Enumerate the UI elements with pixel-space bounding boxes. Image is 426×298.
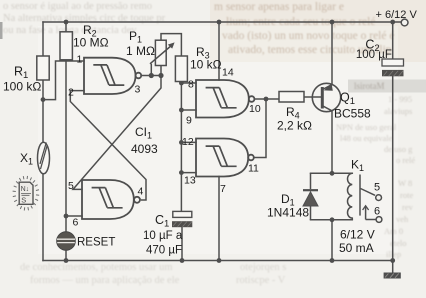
junction D1 / relay bottom — [330, 217, 335, 222]
magnet icon near X1 — [13, 176, 40, 211]
wire P1 wiper drop — [150, 65, 152, 76]
svg-text:l48 ou equivale: l48 ou equivale — [340, 133, 393, 143]
bleed-through background text (decorative) — [214, 1, 394, 56]
supply terminal +6/12V — [376, 9, 418, 26]
junction P1 wiper / pin 3 node — [149, 73, 154, 78]
svg-text:100 µF: 100 µF — [356, 49, 392, 61]
svg-text:BC558: BC558 — [334, 107, 371, 121]
svg-text:NPN de uso geral: NPN de uso geral — [336, 122, 397, 132]
svg-text:11: 11 — [248, 163, 259, 175]
svg-text:12: 12 — [182, 136, 194, 148]
junction collector / D1 / relay top — [330, 171, 335, 176]
wire pin 6 stub — [66, 215, 82, 217]
svg-text:1 MΩ: 1 MΩ — [126, 44, 155, 58]
gate U1d (pins 5,6,4) — [82, 180, 140, 219]
svg-text:470 µF: 470 µF — [146, 245, 182, 257]
junction relay / ground rail — [330, 258, 335, 263]
junction C2 / ground corner — [390, 258, 395, 263]
resistor R3 — [175, 45, 221, 82]
svg-text:10: 10 — [249, 103, 261, 115]
junction Q1 emitter / supply rail — [330, 20, 335, 25]
wire ground stub — [392, 261, 394, 273]
wire X1 to bottom rail — [42, 174, 44, 261]
junction R2 / pin 6 / reset — [64, 214, 69, 219]
svg-text:10 MΩ: 10 MΩ — [73, 36, 109, 50]
svg-text:6: 6 — [374, 206, 380, 218]
svg-text:50 mA: 50 mA — [339, 241, 374, 255]
svg-text:N↓: N↓ — [21, 186, 30, 193]
svg-text:lsirotaM: lsirotaM — [354, 81, 385, 91]
wire pin 8 stub — [181, 82, 196, 84]
junction R2 / supply rail — [64, 20, 69, 25]
svg-text:100 kΩ: 100 kΩ — [3, 80, 41, 94]
wire pin 7 to ground — [218, 177, 220, 261]
wire left column top (rail to R1) — [42, 22, 44, 56]
svg-text:6/12 V: 6/12 V — [340, 228, 375, 242]
wire relay/diode bottom wire — [311, 219, 353, 221]
svg-text:rev: rev — [402, 202, 414, 212]
svg-text:5: 5 — [374, 182, 380, 194]
wire R4 to Q1 base — [304, 96, 321, 98]
svg-text:rotiscpe - V: rotiscpe - V — [236, 275, 286, 286]
wire P1 bottom lead — [160, 66, 162, 76]
diode D1 — [267, 173, 318, 220]
svg-text:4: 4 — [138, 186, 144, 198]
wire top supply rail — [43, 21, 401, 23]
wire pin 10 output to R4 — [254, 98, 279, 100]
svg-text:m sensor apenas para ligar e: m sensor apenas para ligar e — [214, 1, 344, 13]
svg-text:otejorqen s: otejorqen s — [240, 262, 286, 273]
wire R2 top lead — [65, 22, 67, 32]
wire R3 bottom / timing bus — [180, 82, 182, 212]
svg-text:10 kΩ: 10 kΩ — [190, 58, 222, 72]
svg-text:3: 3 — [135, 84, 141, 96]
ground — [384, 273, 401, 279]
svg-text:2: 2 — [68, 87, 74, 99]
op IC label CI1 4093 — [131, 125, 158, 156]
svg-text:2,2 kΩ: 2,2 kΩ — [277, 119, 312, 133]
svg-text:1N4148: 1N4148 — [267, 206, 309, 220]
svg-text:7: 7 — [220, 183, 226, 195]
wire bottom ground rail — [43, 260, 393, 262]
junction pins 10-11 tie — [264, 97, 269, 102]
svg-text:alaviups: alaviups — [384, 106, 412, 116]
resistor R1 — [3, 56, 49, 94]
reset pushbutton — [57, 232, 116, 251]
wire P1 top to R3 top — [161, 34, 181, 56]
junction bus / pin 13 — [179, 170, 184, 175]
wire gate output pin 3 node — [141, 75, 161, 77]
wire C2 leads — [392, 22, 394, 261]
svg-text:14: 14 — [222, 67, 234, 79]
wire pin 2 to gate U1d output (cross link) — [70, 91, 146, 200]
wire pin 14 to supply — [218, 22, 220, 80]
svg-text:1 - 995: 1 - 995 — [388, 94, 412, 104]
junction reset / ground rail — [64, 258, 69, 263]
resistor R2 — [60, 23, 109, 60]
svg-text:6: 6 — [73, 217, 79, 229]
svg-text:de uso g: de uso g — [384, 144, 413, 154]
svg-text:Am 0: Am 0 — [384, 226, 403, 236]
wire Q1 collector down — [323, 106, 333, 174]
potentiometer P1 — [126, 29, 175, 66]
wire R2 bottom to pin 6 node — [65, 60, 67, 216]
junction node A (R1/X1/pin1) — [41, 97, 46, 102]
wire pin 3 node to pin 5 (cross link) — [73, 76, 161, 190]
svg-text:8: 8 — [188, 79, 194, 91]
relay K1 — [348, 173, 382, 222]
junction pin 14 / supply rail — [217, 20, 222, 25]
wire pin 13 stub — [181, 172, 196, 174]
wire pin 12 stub — [181, 141, 196, 143]
wire relay top wire — [311, 172, 353, 174]
wire pin 11 tied to pin 10 — [254, 99, 266, 158]
junction C1 / ground rail — [180, 258, 185, 263]
svg-text:W 8: W 8 — [398, 178, 412, 188]
capacitor C2 — [356, 38, 404, 77]
wire Q1 emitter to supply — [323, 22, 333, 90]
svg-text:de conhecimentos, potemos usar: de conhecimentos, potemos usar um — [20, 262, 173, 273]
sensor X1 (reed switch) — [20, 142, 50, 174]
svg-text:4093: 4093 — [131, 142, 158, 156]
wire node A to gate pin 1 — [43, 61, 84, 100]
wire reset button leads — [65, 216, 67, 261]
svg-text:13: 13 — [184, 175, 196, 187]
gate U1a (pins 1,2,3) — [84, 58, 141, 94]
wire node A to X1 — [42, 100, 44, 143]
junction P1 end / pin 3 node — [158, 73, 163, 78]
gate U1c (pins 12,13,11) — [196, 139, 254, 177]
resistor R4 — [277, 92, 312, 133]
capacitor C1 — [143, 211, 192, 256]
junction pin 7 / ground rail — [217, 258, 222, 263]
svg-text:veh: veh — [396, 214, 409, 224]
wire C1 bottom lead — [181, 227, 183, 260]
svg-text:illep: illep — [386, 249, 401, 259]
junction C2 / supply rail — [390, 20, 395, 25]
wire relay node to ground rail — [331, 220, 333, 261]
transistor Q1 — [312, 83, 371, 120]
svg-text:1: 1 — [77, 54, 83, 66]
svg-text:o relé: o relé — [396, 155, 415, 165]
junction R3 / pin 8 — [179, 81, 184, 86]
junction bus / pin 12 — [179, 140, 184, 145]
svg-text:o sensor é igual ao de pressão: o sensor é igual ao de pressão remo — [3, 1, 152, 12]
junction bus / pin 9 — [179, 108, 184, 113]
svg-text:+ 6/12 V: + 6/12 V — [376, 9, 418, 21]
wire pin 9 stub — [181, 109, 196, 111]
gate U1b (pins 8,9,10) — [196, 80, 254, 118]
wire R1 to node A — [42, 80, 44, 100]
svg-text:9: 9 — [186, 115, 192, 127]
svg-text:S: S — [21, 196, 26, 205]
svg-text:10 µF a: 10 µF a — [143, 230, 183, 242]
svg-text:5: 5 — [68, 180, 74, 192]
svg-text:RESET: RESET — [77, 237, 115, 249]
svg-text:formos — um para aplicação de: formos — um para aplicação de ele — [30, 275, 180, 286]
svg-text:rote: rote — [400, 190, 413, 200]
